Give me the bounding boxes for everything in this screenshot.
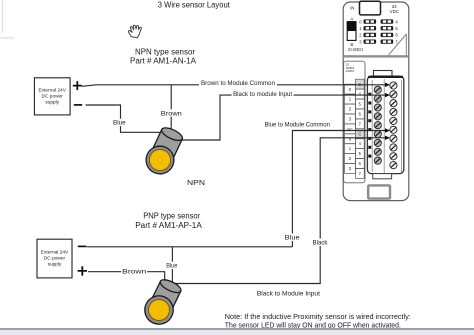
LED indicators 0-7 xyxy=(359,19,398,44)
module bottom connector xyxy=(368,185,390,198)
sensor PNP xyxy=(140,276,185,329)
NPN header text xyxy=(130,47,197,65)
svg-text:Black to module Input: Black to module Input xyxy=(233,91,292,98)
svg-text:Blue: Blue xyxy=(285,235,301,242)
svg-text:supply: supply xyxy=(48,262,62,268)
svg-text:VDC: VDC xyxy=(390,9,399,14)
arrowhead black NPN xyxy=(385,93,390,97)
wire brown PNP supply plus to sensor xyxy=(88,272,165,282)
label Black (PNP riser) xyxy=(312,239,329,247)
svg-text:Brown: Brown xyxy=(122,269,147,276)
terminal screws right column xyxy=(390,82,397,169)
power supply PS1 (NPN) xyxy=(34,78,70,115)
arrowhead blue PNP xyxy=(385,128,390,132)
label Brown (PNP) xyxy=(121,268,147,276)
label Blue to Module Common xyxy=(263,121,331,129)
wire blue NPN supply minus to sensor xyxy=(86,105,163,132)
minus terminal PS1 xyxy=(74,104,82,106)
switch S1 A/B xyxy=(347,17,356,47)
svg-text:Black: Black xyxy=(313,240,329,247)
svg-text:Blue: Blue xyxy=(166,263,177,270)
wire blue PNP riser to module common xyxy=(292,131,386,247)
legend cells left column xyxy=(345,84,356,173)
svg-text:Brown: Brown xyxy=(161,110,183,117)
label Brown (NPN) xyxy=(160,109,184,117)
svg-text:supply: supply xyxy=(45,100,59,106)
module case xyxy=(343,2,409,201)
svg-text:Note: If the inductive Proximi: Note: If the inductive Proximity sensor … xyxy=(225,314,411,321)
svg-text:Brown to Module Common: Brown to Module Common xyxy=(201,80,275,87)
label Black to module Input xyxy=(232,90,294,98)
minus terminal PS2 xyxy=(78,245,86,247)
svg-text:Part # AM1-AN-1A: Part # AM1-AN-1A xyxy=(130,56,197,65)
wire brown NPN drop to sensor xyxy=(170,85,172,131)
svg-text:DC power: DC power xyxy=(44,256,66,262)
svg-text:External 24V: External 24V xyxy=(41,250,69,256)
svg-text:3 Wire sensor Layout: 3 Wire sensor Layout xyxy=(158,0,231,9)
terminal clamp marks xyxy=(368,93,371,158)
wire black NPN sensor to module input xyxy=(176,95,386,140)
label Blue (PNP drop) xyxy=(166,262,179,270)
module divider bar xyxy=(343,55,409,57)
legend cells right column xyxy=(355,79,364,178)
label Blue (PNP riser) xyxy=(284,234,300,242)
label Blue (NPN) xyxy=(113,119,127,127)
note text xyxy=(225,314,411,329)
bottom window band xyxy=(0,328,474,335)
wire blue PNP drop to sensor xyxy=(171,247,173,284)
terminal screws left column xyxy=(374,86,381,164)
svg-text:IN: IN xyxy=(350,5,354,10)
arrowhead brown xyxy=(385,83,390,87)
hand cursor icon xyxy=(128,25,141,37)
svg-text:DC power: DC power xyxy=(42,94,64,100)
plus terminal PS2 xyxy=(78,266,87,275)
svg-text:C: C xyxy=(358,131,361,136)
svg-text:Black to Module Input: Black to Module Input xyxy=(257,290,320,297)
arrowhead black PNP xyxy=(385,136,390,140)
module label 24 VDC xyxy=(390,4,399,14)
sensor NPN xyxy=(142,124,187,178)
page edge artifact left xyxy=(0,0,14,39)
svg-text:24VDC: 24VDC xyxy=(346,69,355,73)
module face chamfer xyxy=(388,34,406,55)
svg-text:D2-16ND3-2: D2-16ND3-2 xyxy=(348,47,363,52)
wire brown NPN to module common xyxy=(82,85,386,87)
svg-text:Blue: Blue xyxy=(113,120,126,127)
module top tab xyxy=(360,1,381,15)
svg-text:PNP type sensor: PNP type sensor xyxy=(143,212,200,221)
terminal block xyxy=(367,71,403,179)
power supply PS2 (PNP) xyxy=(37,239,72,278)
label Brown to Module Common xyxy=(199,79,277,87)
svg-text:NPN: NPN xyxy=(187,180,205,187)
svg-text:A: A xyxy=(350,17,353,22)
wire minus PNP supply xyxy=(87,246,293,248)
terminal legend strip xyxy=(344,61,365,183)
label Black to Module Input (bottom) xyxy=(257,290,320,297)
svg-text:NPN type sensor: NPN type sensor xyxy=(135,47,195,56)
svg-text:B: B xyxy=(350,42,353,47)
svg-text:Blue to Module Common: Blue to Module Common xyxy=(264,122,330,129)
plus terminal PS1 xyxy=(73,81,82,90)
wire black PNP sensor to module input xyxy=(175,138,386,284)
svg-text:Part # AM1-AP-1A: Part # AM1-AP-1A xyxy=(135,221,202,230)
PNP header text xyxy=(135,212,202,231)
svg-text:External 24V: External 24V xyxy=(38,88,66,94)
